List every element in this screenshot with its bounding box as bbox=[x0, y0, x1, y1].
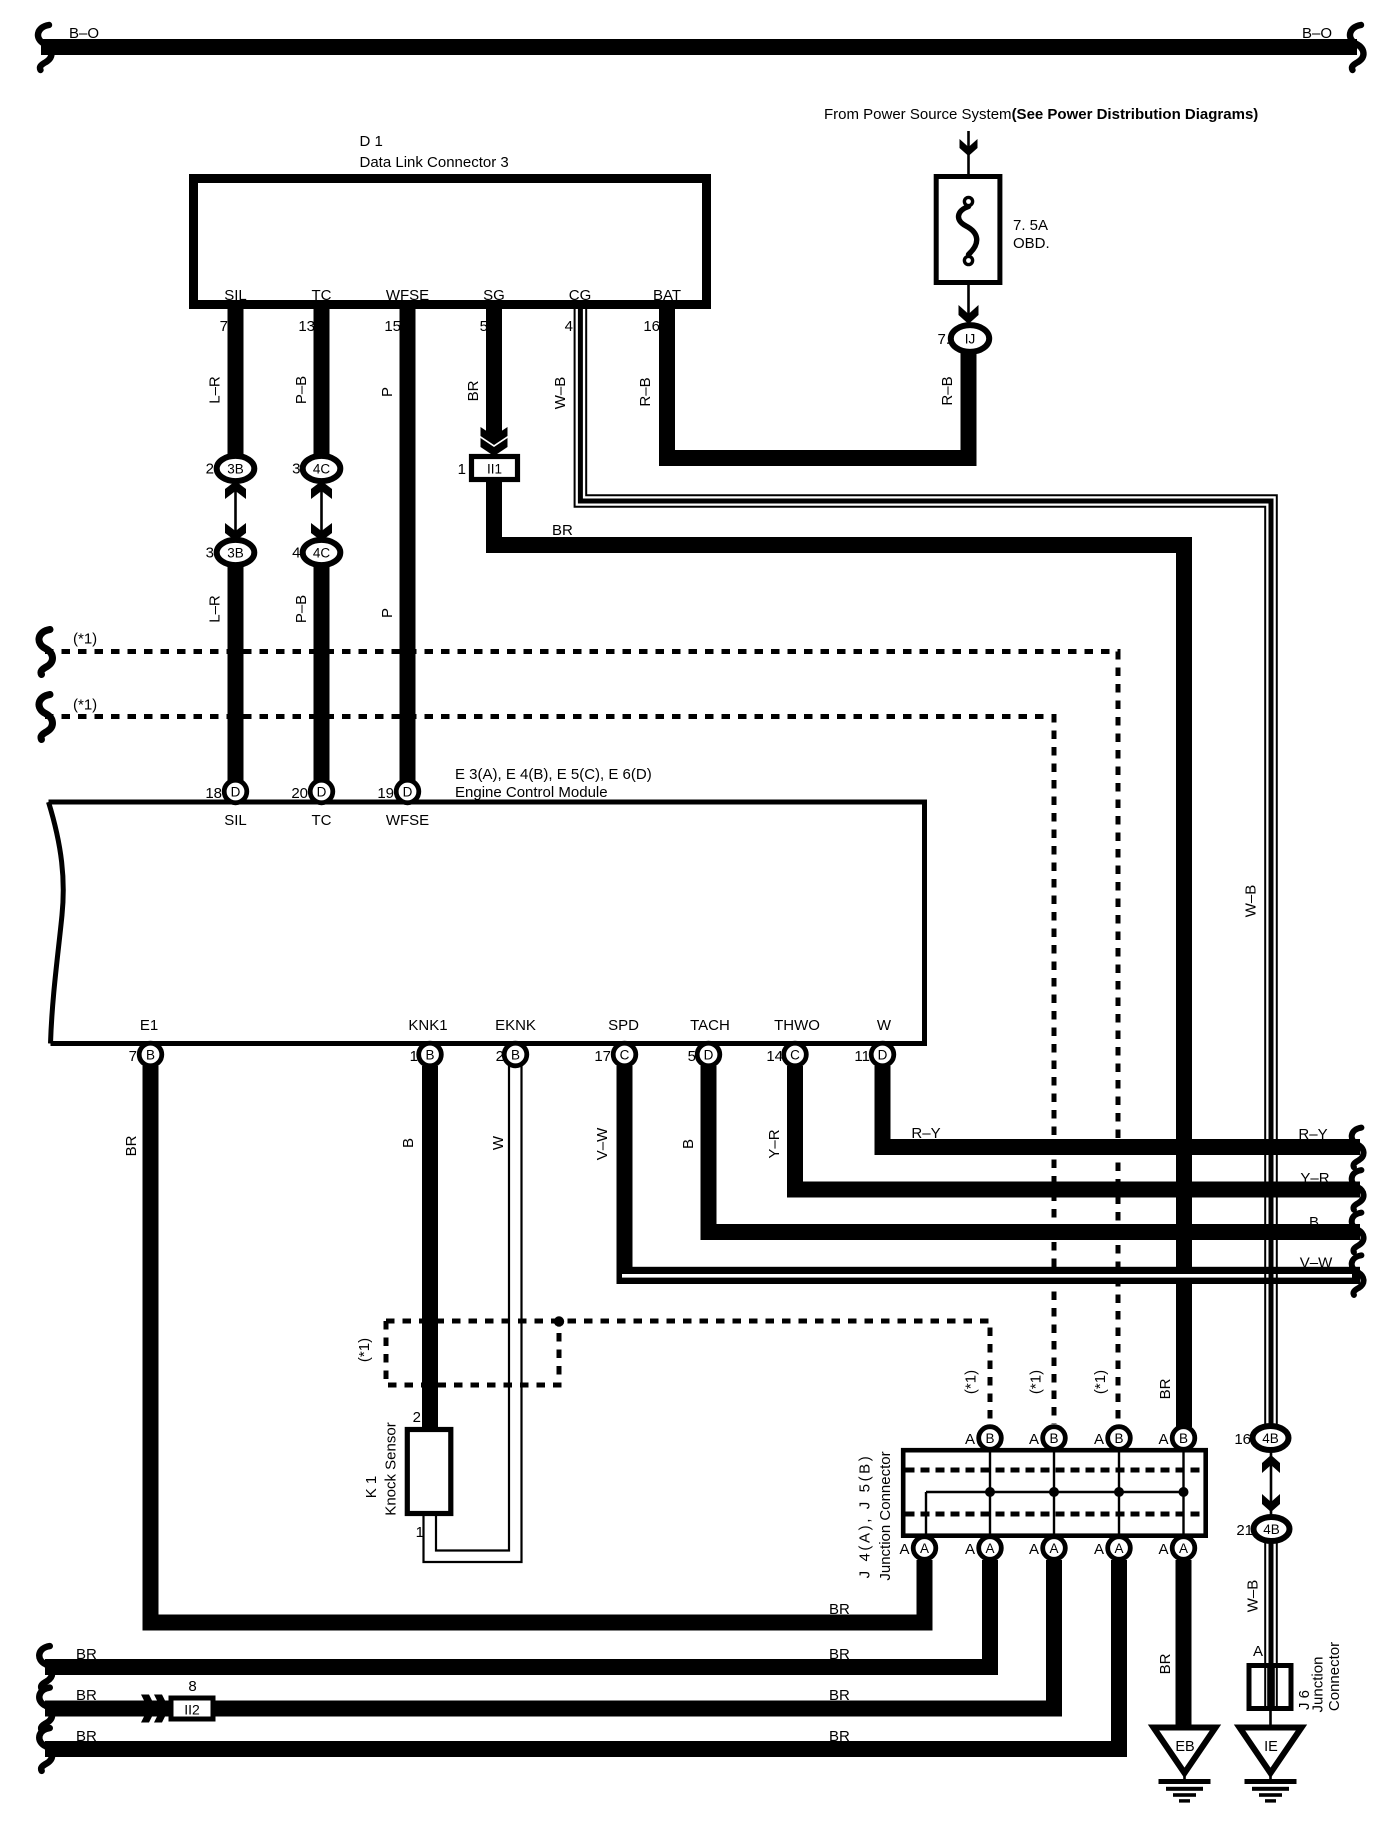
svg-text:4C: 4C bbox=[313, 461, 331, 476]
svg-text:11: 11 bbox=[854, 1048, 870, 1065]
svg-text:8: 8 bbox=[188, 1678, 196, 1695]
svg-text:4B: 4B bbox=[1263, 1522, 1280, 1537]
svg-text:7: 7 bbox=[220, 318, 228, 335]
svg-text:BR: BR bbox=[76, 1728, 97, 1745]
svg-text:(*1): (*1) bbox=[73, 697, 97, 714]
svg-text:20: 20 bbox=[291, 785, 308, 802]
svg-text:D: D bbox=[878, 1047, 888, 1062]
svg-text:BR: BR bbox=[76, 1646, 97, 1663]
svg-text:B: B bbox=[680, 1139, 697, 1149]
svg-text:B: B bbox=[1049, 1431, 1058, 1446]
svg-text:7: 7 bbox=[129, 1048, 137, 1065]
svg-text:(*1): (*1) bbox=[356, 1338, 373, 1362]
svg-text:7. 5A: 7. 5A bbox=[1013, 217, 1048, 234]
svg-text:SIL: SIL bbox=[224, 812, 247, 829]
svg-text:14: 14 bbox=[766, 1048, 783, 1065]
svg-text:TC: TC bbox=[312, 812, 332, 829]
svg-text:E 3(A), E 4(B), E 5(C), E 6(D): E 3(A), E 4(B), E 5(C), E 6(D) bbox=[455, 766, 652, 783]
svg-text:(*1): (*1) bbox=[1028, 1370, 1045, 1394]
svg-text:TACH: TACH bbox=[690, 1017, 730, 1034]
svg-text:SIL: SIL bbox=[224, 287, 247, 304]
svg-text:A: A bbox=[920, 1541, 929, 1556]
svg-text:A: A bbox=[1179, 1541, 1188, 1556]
svg-text:B: B bbox=[1114, 1431, 1123, 1446]
svg-text:A: A bbox=[1158, 1541, 1168, 1558]
svg-text:C: C bbox=[620, 1047, 630, 1062]
svg-text:R–B: R–B bbox=[939, 376, 956, 405]
svg-text:THWO: THWO bbox=[774, 1017, 820, 1034]
svg-text:Junction Connector: Junction Connector bbox=[877, 1451, 894, 1580]
svg-text:4: 4 bbox=[292, 545, 300, 562]
svg-text:BR: BR bbox=[1157, 1378, 1174, 1399]
svg-text:II1: II1 bbox=[487, 462, 502, 477]
svg-text:D: D bbox=[231, 784, 241, 799]
svg-text:R–Y: R–Y bbox=[911, 1125, 940, 1142]
svg-text:WFSE: WFSE bbox=[386, 287, 429, 304]
svg-text:II2: II2 bbox=[184, 1702, 200, 1718]
svg-text:P–B: P–B bbox=[293, 595, 310, 623]
svg-text:W–B: W–B bbox=[1245, 1580, 1262, 1613]
svg-text:A: A bbox=[1158, 1431, 1168, 1448]
svg-text:5: 5 bbox=[688, 1048, 696, 1065]
svg-text:B–O: B–O bbox=[69, 25, 99, 42]
svg-text:16: 16 bbox=[1234, 1431, 1251, 1448]
svg-text:L–R: L–R bbox=[207, 595, 224, 623]
svg-text:3B: 3B bbox=[227, 461, 244, 476]
svg-text:OBD.: OBD. bbox=[1013, 235, 1050, 252]
svg-text:B: B bbox=[1179, 1431, 1188, 1446]
svg-text:(*1): (*1) bbox=[963, 1370, 980, 1394]
svg-text:P: P bbox=[379, 387, 396, 397]
svg-text:E1: E1 bbox=[140, 1017, 158, 1034]
svg-text:P–B: P–B bbox=[293, 376, 310, 404]
svg-text:2: 2 bbox=[413, 1409, 421, 1426]
svg-text:BR: BR bbox=[552, 522, 573, 539]
svg-text:BR: BR bbox=[465, 380, 482, 401]
svg-text:16: 16 bbox=[643, 318, 660, 335]
svg-text:Connector: Connector bbox=[1326, 1642, 1343, 1711]
svg-text:B: B bbox=[511, 1047, 520, 1062]
svg-text:A: A bbox=[965, 1431, 975, 1448]
svg-text:BR: BR bbox=[829, 1646, 850, 1663]
svg-text:P: P bbox=[379, 608, 396, 618]
svg-text:D: D bbox=[704, 1047, 714, 1062]
svg-text:D 1: D 1 bbox=[360, 133, 383, 150]
svg-text:R–Y: R–Y bbox=[1298, 1126, 1327, 1143]
svg-text:A: A bbox=[1029, 1541, 1039, 1558]
svg-text:TC: TC bbox=[312, 287, 332, 304]
svg-text:BR: BR bbox=[829, 1687, 850, 1704]
svg-text:J 4(A), J 5(B): J 4(A), J 5(B) bbox=[857, 1454, 874, 1579]
svg-text:Knock Sensor: Knock Sensor bbox=[383, 1422, 400, 1515]
svg-text:BR: BR bbox=[123, 1135, 140, 1156]
svg-text:7.: 7. bbox=[937, 331, 950, 348]
svg-text:V–W: V–W bbox=[1300, 1255, 1333, 1272]
svg-text:IE: IE bbox=[1264, 1739, 1278, 1755]
svg-text:From Power Source System(See P: From Power Source System(See Power Distr… bbox=[824, 106, 1258, 123]
svg-text:D: D bbox=[317, 784, 327, 799]
svg-text:BR: BR bbox=[829, 1601, 850, 1618]
svg-text:4C: 4C bbox=[313, 545, 331, 560]
svg-text:Data Link Connector 3: Data Link Connector 3 bbox=[360, 154, 509, 171]
svg-text:SG: SG bbox=[483, 287, 505, 304]
svg-text:B: B bbox=[146, 1047, 155, 1062]
svg-text:A: A bbox=[899, 1541, 909, 1558]
svg-text:A: A bbox=[985, 1541, 994, 1556]
svg-text:3: 3 bbox=[292, 461, 300, 478]
svg-text:15: 15 bbox=[384, 318, 401, 335]
svg-text:K 1: K 1 bbox=[363, 1476, 380, 1499]
svg-text:B: B bbox=[400, 1138, 417, 1148]
svg-text:Y–R: Y–R bbox=[1300, 1170, 1329, 1187]
svg-text:19: 19 bbox=[377, 785, 394, 802]
svg-text:2: 2 bbox=[206, 461, 214, 478]
svg-text:EKNK: EKNK bbox=[495, 1017, 536, 1034]
svg-text:13: 13 bbox=[298, 318, 315, 335]
svg-text:Y–R: Y–R bbox=[766, 1129, 783, 1158]
svg-text:W: W bbox=[490, 1135, 507, 1150]
svg-text:A: A bbox=[1094, 1541, 1104, 1558]
svg-text:1: 1 bbox=[410, 1048, 418, 1065]
svg-text:B–O: B–O bbox=[1302, 25, 1332, 42]
svg-text:21: 21 bbox=[1236, 1522, 1253, 1539]
svg-text:W: W bbox=[877, 1017, 892, 1034]
svg-text:18: 18 bbox=[205, 785, 222, 802]
svg-text:EB: EB bbox=[1175, 1739, 1194, 1755]
svg-text:W–B: W–B bbox=[1243, 885, 1260, 918]
svg-text:1: 1 bbox=[458, 461, 466, 478]
svg-text:C: C bbox=[790, 1047, 800, 1062]
svg-text:IJ: IJ bbox=[965, 331, 976, 346]
svg-text:B: B bbox=[985, 1431, 994, 1446]
svg-text:L–R: L–R bbox=[207, 376, 224, 404]
svg-text:2: 2 bbox=[496, 1048, 504, 1065]
svg-text:KNK1: KNK1 bbox=[408, 1017, 447, 1034]
svg-text:R–B: R–B bbox=[637, 377, 654, 406]
svg-text:17: 17 bbox=[594, 1048, 611, 1065]
svg-text:B: B bbox=[425, 1047, 434, 1062]
svg-text:4B: 4B bbox=[1262, 1431, 1279, 1446]
svg-text:B: B bbox=[1309, 1214, 1319, 1231]
svg-text:Junction: Junction bbox=[1310, 1657, 1327, 1713]
svg-text:A: A bbox=[1094, 1431, 1104, 1448]
svg-text:W–B: W–B bbox=[552, 377, 569, 410]
svg-text:A: A bbox=[1029, 1431, 1039, 1448]
svg-text:Engine Control Module: Engine Control Module bbox=[455, 784, 608, 801]
svg-text:SPD: SPD bbox=[608, 1017, 639, 1034]
svg-text:A: A bbox=[1049, 1541, 1058, 1556]
svg-text:(*1): (*1) bbox=[1092, 1370, 1109, 1394]
svg-text:A: A bbox=[1114, 1541, 1123, 1556]
svg-text:CG: CG bbox=[569, 287, 592, 304]
svg-text:5: 5 bbox=[480, 318, 488, 335]
svg-text:1: 1 bbox=[416, 1524, 424, 1541]
svg-text:BR: BR bbox=[1157, 1653, 1174, 1674]
svg-text:3: 3 bbox=[206, 545, 214, 562]
svg-text:3B: 3B bbox=[227, 545, 244, 560]
svg-text:A: A bbox=[965, 1541, 975, 1558]
svg-text:V–W: V–W bbox=[594, 1127, 611, 1160]
svg-text:WFSE: WFSE bbox=[386, 812, 429, 829]
svg-text:BR: BR bbox=[76, 1687, 97, 1704]
svg-text:A: A bbox=[1253, 1643, 1263, 1660]
svg-text:D: D bbox=[403, 784, 413, 799]
svg-text:BR: BR bbox=[829, 1728, 850, 1745]
svg-text:4: 4 bbox=[565, 318, 573, 335]
svg-text:(*1): (*1) bbox=[73, 631, 97, 648]
svg-text:BAT: BAT bbox=[653, 287, 681, 304]
